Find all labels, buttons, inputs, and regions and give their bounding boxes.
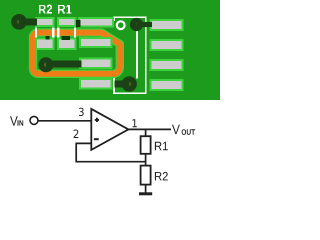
via 2 stub (bottom-copper trace to pin 3) — [46, 61, 81, 68]
PCB board background — [0, 0, 220, 100]
IC footprint silkscreen outline U1 — [113, 17, 115, 22]
IC pad pin 6 (right row 3) — [151, 60, 183, 70]
via 2 — [39, 57, 54, 72]
white inner-layer trace linking via 4 to via 3 — [136, 29, 138, 79]
via 4 stub — [137, 22, 152, 27]
label R1 (silkscreen) — [58, 5, 72, 14]
pin number 2 — [74, 130, 79, 139]
pad R1 top — [58, 18, 76, 26]
IC pad pin 3 (left row 3) — [80, 59, 112, 68]
pad R2 bottom — [36, 39, 54, 49]
minus mark (pin 2) — [94, 138, 99, 140]
IC pad pin 4 (left row 4) — [80, 79, 112, 88]
via 3 — [122, 76, 137, 91]
dark link R1 bottom pad to ring — [62, 36, 71, 40]
label R2 (silkscreen) — [39, 5, 52, 14]
silkscreen resistor R2 body ticks — [35, 27, 37, 38]
resistor R1 — [141, 136, 151, 154]
wire Vin to pin 3 — [38, 120, 92, 122]
label Vin — [10, 116, 18, 125]
via 4 — [130, 18, 143, 31]
dark link R2 bottom pad to ring — [46, 36, 50, 39]
via 1 stub — [19, 19, 37, 26]
label Vout — [172, 125, 180, 135]
pad R1 bottom — [58, 39, 76, 49]
IC pad pin 8 (right row 1) — [151, 20, 183, 30]
label R1 — [155, 142, 168, 150]
ground — [139, 192, 152, 195]
resistor R2 — [141, 166, 151, 185]
wire R2 to ground — [145, 185, 147, 193]
plus mark (pin 3) — [95, 118, 99, 122]
wire pin2 feedback — [76, 143, 145, 161]
terminal Vin — [30, 116, 38, 124]
wire output junction down to R1 — [145, 129, 147, 136]
pad R2 top — [36, 18, 54, 26]
IC pad pin 1 (left row 1) — [79, 18, 113, 27]
dark link R1 top pad to pin1 pad — [76, 20, 81, 27]
IC pad pin 2 (left row 2) — [80, 38, 112, 47]
IC footprint silkscreen left-edge lower segment (under ring) — [113, 73, 115, 94]
wire: feedback ring halo — [33, 33, 120, 74]
IC pad pin 7 (right row 2) — [151, 40, 183, 50]
op-amp U1 triangle — [91, 109, 128, 150]
wire R1 to junction — [145, 154, 147, 166]
IC pad pin 5 (right row 4) — [151, 80, 183, 90]
pin number 3 — [79, 108, 84, 116]
silkscreen resistor R1 body ticks — [57, 27, 59, 38]
via 3 stub — [115, 80, 130, 87]
wire: orange top-copper feedback ring — [33, 33, 120, 74]
via 1 — [11, 14, 27, 30]
label R2 — [155, 172, 168, 181]
wire output to Vout — [127, 128, 171, 130]
pin number 1 — [133, 119, 137, 127]
silkscreen pin-1 marker circle — [117, 21, 125, 29]
